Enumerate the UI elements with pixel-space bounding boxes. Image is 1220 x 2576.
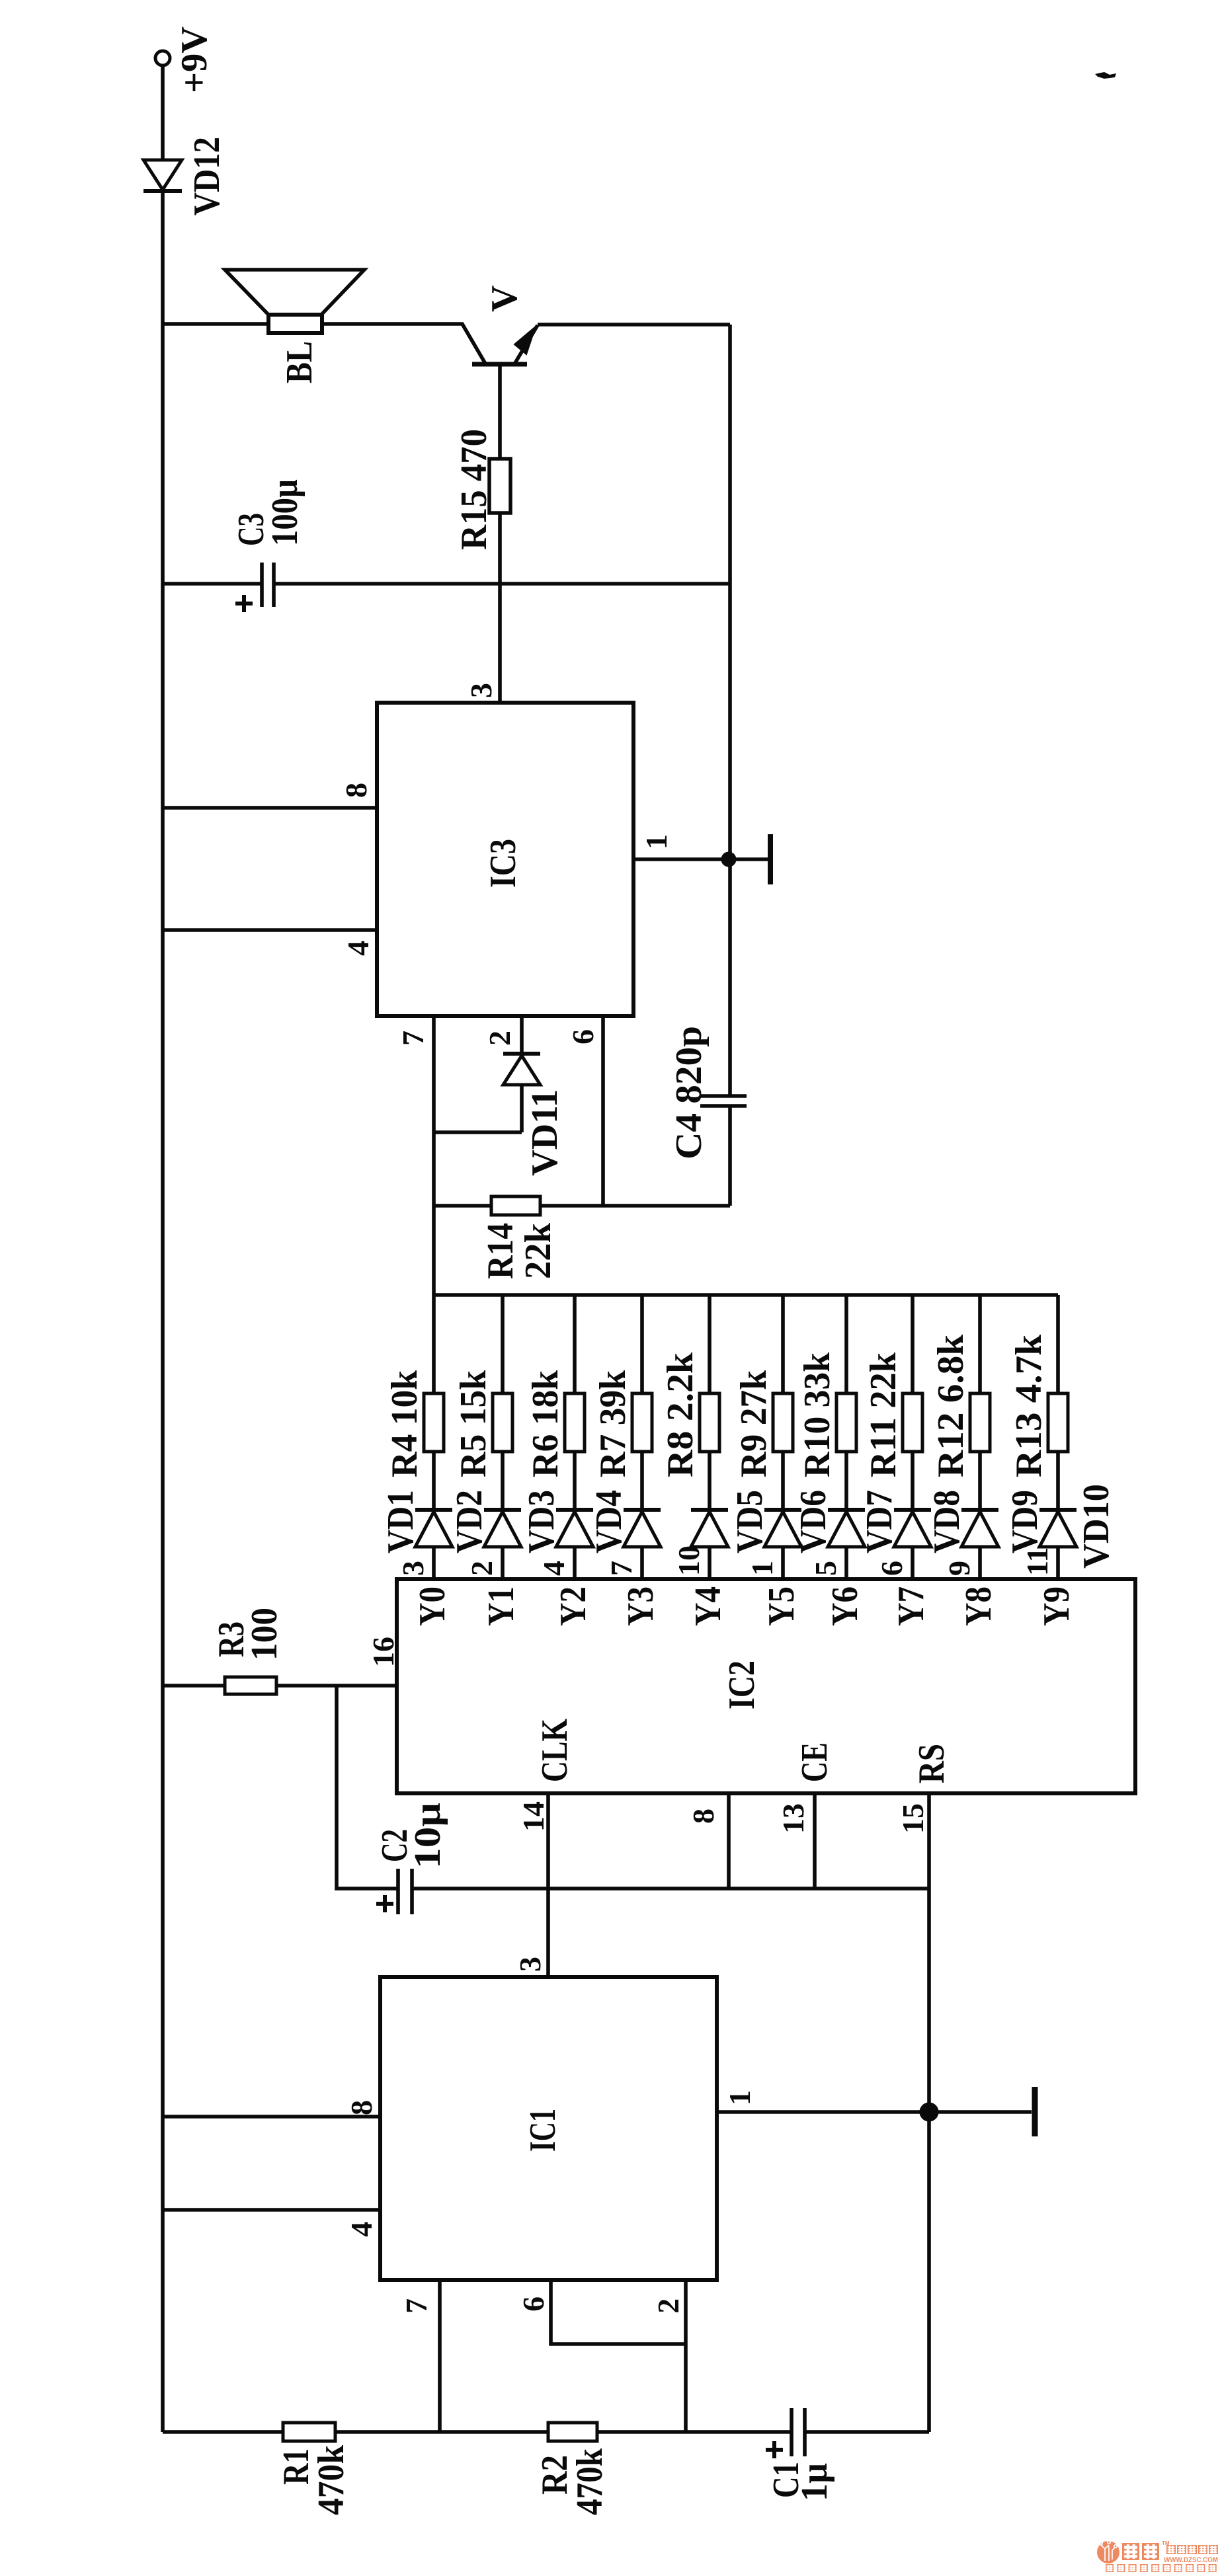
svg-text:Y6: Y6: [825, 1586, 866, 1626]
svg-text:R9 27k: R9 27k: [733, 1370, 774, 1477]
svg-text:WWW.DZSC.COM: WWW.DZSC.COM: [1164, 2556, 1218, 2564]
svg-text:Y9: Y9: [1036, 1586, 1077, 1626]
svg-text:V: V: [484, 286, 525, 312]
svg-text:22k: 22k: [518, 1222, 559, 1279]
svg-text:6: 6: [566, 1029, 600, 1044]
svg-text:5: 5: [809, 1561, 842, 1576]
svg-text:8: 8: [686, 1809, 720, 1824]
svg-text:4: 4: [345, 2222, 378, 2237]
svg-text:VD4: VD4: [589, 1490, 630, 1553]
svg-text:R7 39k: R7 39k: [592, 1370, 633, 1477]
svg-text:2: 2: [651, 2298, 685, 2314]
svg-text:VD3: VD3: [521, 1490, 562, 1553]
svg-text:R8 2.2k: R8 2.2k: [660, 1352, 701, 1477]
svg-text:Y4: Y4: [688, 1586, 729, 1626]
svg-text:16: 16: [366, 1637, 400, 1667]
svg-text:R6 18k: R6 18k: [525, 1370, 566, 1477]
svg-text:R13 4.7k: R13 4.7k: [1008, 1334, 1049, 1477]
svg-text:3: 3: [396, 1561, 430, 1576]
svg-text:RS: RS: [911, 1744, 952, 1783]
svg-text:1: 1: [639, 834, 673, 849]
svg-text:Y1: Y1: [481, 1586, 522, 1626]
svg-text:R15 470: R15 470: [454, 429, 495, 550]
svg-text:470k: 470k: [311, 2444, 352, 2515]
svg-text:R11 22k: R11 22k: [863, 1352, 904, 1477]
svg-text:+9V: +9V: [174, 26, 215, 93]
svg-text:14: 14: [516, 1801, 550, 1832]
svg-text:15: 15: [896, 1803, 930, 1834]
svg-text:10µ: 10µ: [407, 1803, 448, 1869]
svg-text:R12 6.8k: R12 6.8k: [930, 1334, 971, 1477]
svg-text:9: 9: [942, 1561, 976, 1576]
svg-text:13: 13: [776, 1803, 810, 1834]
svg-text:Y7: Y7: [891, 1586, 932, 1626]
svg-text:BL: BL: [279, 341, 320, 383]
svg-text:R4 10k: R4 10k: [384, 1370, 425, 1477]
svg-text:VD8: VD8: [926, 1490, 967, 1553]
svg-text:VD2: VD2: [449, 1490, 490, 1553]
svg-text:Y3: Y3: [620, 1586, 661, 1626]
svg-text:Y5: Y5: [761, 1586, 802, 1626]
svg-text:3: 3: [513, 1957, 547, 1972]
svg-text:VD7: VD7: [859, 1490, 900, 1553]
svg-text:IC2: IC2: [721, 1660, 762, 1709]
svg-text:6: 6: [875, 1561, 909, 1576]
svg-text:100: 100: [244, 1608, 285, 1660]
svg-text:VD12: VD12: [186, 137, 227, 215]
svg-text:Y0: Y0: [412, 1586, 453, 1626]
svg-text:CLK: CLK: [534, 1719, 575, 1782]
svg-text:100µ: 100µ: [264, 479, 305, 546]
svg-text:4: 4: [341, 941, 375, 956]
svg-text:R10 33k: R10 33k: [797, 1352, 838, 1477]
svg-text:IC1: IC1: [522, 2109, 563, 2152]
svg-text:10: 10: [672, 1545, 706, 1576]
svg-text:VD9: VD9: [1004, 1490, 1045, 1553]
svg-text:8: 8: [339, 783, 373, 798]
svg-text:VD1: VD1: [380, 1490, 421, 1553]
svg-text:1µ: 1µ: [794, 2463, 835, 2501]
svg-text:4: 4: [537, 1561, 571, 1576]
svg-text:IC3: IC3: [483, 839, 524, 888]
svg-text:VD5: VD5: [729, 1490, 770, 1553]
svg-text:Y2: Y2: [553, 1586, 594, 1626]
svg-text:470k: 470k: [569, 2448, 610, 2515]
svg-text:CE: CE: [794, 1742, 835, 1782]
svg-text:Y8: Y8: [958, 1586, 999, 1626]
svg-text:8: 8: [345, 2100, 378, 2115]
svg-text:C4 820p: C4 820p: [669, 1026, 710, 1159]
svg-text:2: 2: [483, 1031, 516, 1046]
svg-text:2: 2: [465, 1561, 499, 1576]
svg-text:R5 15k: R5 15k: [453, 1370, 494, 1477]
svg-text:7: 7: [399, 2298, 433, 2314]
svg-text:1: 1: [745, 1561, 779, 1576]
svg-text:6: 6: [516, 2296, 550, 2312]
svg-text:VD11: VD11: [524, 1089, 565, 1176]
svg-text:VD10: VD10: [1076, 1484, 1117, 1569]
svg-text:R14: R14: [480, 1223, 521, 1279]
svg-text:7: 7: [396, 1031, 430, 1046]
svg-text:3: 3: [464, 683, 498, 698]
svg-text:VD6: VD6: [793, 1490, 834, 1553]
svg-text:7: 7: [604, 1561, 638, 1576]
svg-text:1: 1: [723, 2090, 756, 2105]
